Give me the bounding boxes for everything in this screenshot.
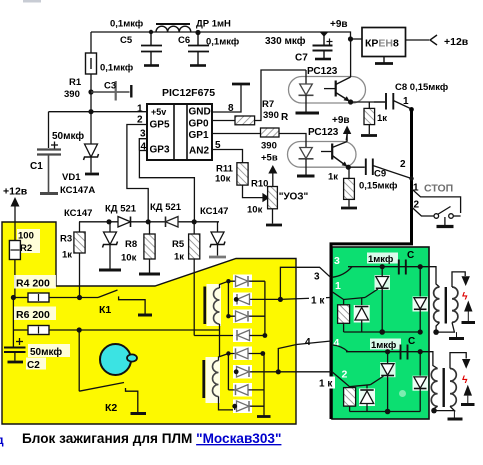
- diode gate ch2: [359, 389, 375, 412]
- svg-text:+5в: +5в: [261, 153, 278, 164]
- svg-text:+9в: +9в: [330, 19, 348, 30]
- svg-text:1 к: 1 к: [311, 296, 325, 307]
- node ch1 bottom out: [418, 329, 423, 334]
- resistor R6 200: [14, 307, 56, 321]
- phototransistor of U3: [332, 134, 347, 167]
- watermark dot: [399, 390, 406, 397]
- wire R5 bottom bus: [194, 335, 249, 337]
- node middle: [146, 219, 151, 224]
- svg-text:VD1: VD1: [62, 172, 81, 183]
- svg-text:1 к: 1 к: [319, 379, 333, 390]
- node bus top: [409, 107, 414, 112]
- svg-text:R6 200: R6 200: [16, 309, 50, 321]
- capacitor C7 electrolytic 330uF: [313, 33, 333, 59]
- svg-text:+9в: +9в: [332, 115, 350, 126]
- svg-text:2: 2: [400, 159, 406, 170]
- wire top +9v bus: [91, 32, 351, 39]
- resistor gate ch1: [338, 305, 350, 324]
- svg-text:GP3: GP3: [150, 145, 170, 156]
- node R1/C3 junction: [88, 89, 93, 94]
- svg-text:1мкф: 1мкф: [371, 340, 396, 351]
- capacitor 1uF ch1: [367, 253, 398, 264]
- diode VD2 KD521: [118, 217, 131, 228]
- node C5 junction: [149, 30, 153, 34]
- resistor R7 390 on GP0: [212, 120, 235, 122]
- capacitor C6: [188, 32, 209, 66]
- svg-text:С6: С6: [178, 35, 190, 46]
- ground under KREN8: [375, 57, 393, 64]
- rails channel 2: [228, 341, 331, 416]
- diode freewheel ch1: [413, 267, 429, 332]
- svg-text:С3: С3: [104, 81, 116, 92]
- resistor R11 10k: [237, 163, 248, 185]
- resistor 1k pull-down lower: [348, 167, 350, 178]
- svg-text:1: 1: [137, 104, 143, 115]
- svg-text:390: 390: [64, 89, 80, 100]
- svg-text:3: 3: [314, 272, 320, 283]
- svg-text:R5: R5: [172, 239, 185, 250]
- voltage regulator U KREN8: [362, 28, 406, 57]
- svg-text:4: 4: [334, 337, 340, 349]
- ignition coil T3: [420, 267, 465, 332]
- svg-text:+12в: +12в: [3, 186, 28, 198]
- svg-text:AN2: AN2: [189, 146, 209, 157]
- diode ladder channel 2: [228, 347, 278, 414]
- svg-text:С5: С5: [120, 35, 133, 46]
- svg-text:3: 3: [140, 129, 146, 140]
- node emitter U2: [348, 99, 353, 104]
- svg-text:1: 1: [335, 280, 341, 292]
- node right: [192, 219, 197, 224]
- relay contact K2: [78, 330, 80, 391]
- diode gate ch1: [354, 305, 370, 332]
- wire terminal 3 to CDI: [296, 267, 331, 277]
- zener KS147 right: [209, 222, 226, 257]
- svg-text:10к: 10к: [121, 253, 137, 264]
- zener KS147 left: [99, 222, 121, 270]
- svg-text:R10: R10: [251, 179, 268, 190]
- smudge top: [23, 0, 41, 3]
- svg-text:3: 3: [334, 255, 340, 267]
- svg-text:Блок зажигания для ПЛМ "Москав: Блок зажигания для ПЛМ "Москав303": [22, 431, 281, 446]
- thyristor VS1: [375, 275, 391, 290]
- wire zener bus: [79, 221, 219, 223]
- svg-text:КД 521: КД 521: [105, 204, 137, 215]
- transformer T1 pulse: [207, 284, 222, 326]
- svg-text:+12в: +12в: [444, 36, 469, 48]
- ignition coil T4: [420, 352, 466, 411]
- resistor R4 200: [14, 275, 56, 289]
- svg-text:R: R: [281, 112, 289, 123]
- svg-text:КД 521: КД 521: [150, 202, 182, 213]
- switch STOP kill button: [434, 207, 461, 227]
- potentiometer R10 10k wiper arrow: [252, 194, 269, 201]
- svg-text:ϟ: ϟ: [462, 291, 468, 303]
- node C7 junction: [320, 32, 328, 36]
- wire gate ch2 to CDI: [278, 371, 331, 373]
- svg-text:1к: 1к: [174, 252, 184, 263]
- capacitor C9 0,15uF: [348, 159, 411, 179]
- ground under R10: [272, 209, 274, 224]
- wire ch1 bottom: [344, 331, 421, 333]
- wire +12v output with connector: [406, 39, 430, 41]
- svg-text:330 мкф: 330 мкф: [265, 35, 306, 47]
- node ladder2: [226, 351, 230, 355]
- svg-text:2: 2: [342, 369, 348, 381]
- svg-text:РС123: РС123: [308, 127, 339, 138]
- node bus/VD1 junction: [88, 109, 93, 114]
- svg-text:GP1: GP1: [189, 130, 209, 141]
- node ch1 anode: [380, 264, 385, 269]
- svg-text:10к: 10к: [215, 174, 231, 185]
- svg-text:R2: R2: [20, 243, 32, 254]
- wire ch2 bottom: [350, 411, 421, 413]
- svg-text:КС147А: КС147А: [60, 185, 95, 196]
- ground T3: [449, 332, 464, 338]
- ground T4: [448, 411, 463, 419]
- node ladder1: [234, 297, 239, 302]
- svg-text:0,15мкф: 0,15мкф: [359, 181, 397, 192]
- svg-text:GP0: GP0: [189, 119, 209, 130]
- svg-text:R7: R7: [262, 99, 274, 110]
- node bus C9 tap: [409, 176, 413, 180]
- svg-text:"УОЗ": "УОЗ": [279, 192, 309, 203]
- svg-text:С9: С9: [374, 169, 386, 180]
- svg-text:С: С: [407, 250, 414, 261]
- resistor gate ch2: [344, 388, 356, 407]
- node ch2 cathode: [385, 409, 391, 415]
- svg-text:R3: R3: [60, 234, 72, 245]
- svg-text:1к: 1к: [62, 250, 72, 261]
- svg-text:50мкф: 50мкф: [52, 130, 84, 142]
- relay contact K1: [98, 290, 152, 315]
- resistor R1 390: [90, 32, 92, 53]
- yellow ignition block background: [2, 222, 296, 424]
- svg-text:СТОП: СТОП: [424, 183, 453, 195]
- svg-text:КРЕН8: КРЕН8: [365, 38, 399, 50]
- svg-text:R8: R8: [125, 239, 137, 250]
- node ch2 anode: [385, 349, 390, 354]
- transformer T2 pulse: [206, 357, 221, 403]
- svg-text:С1: С1: [30, 161, 43, 172]
- svg-text:КС147: КС147: [64, 208, 92, 219]
- inductor DR 1mH choke: [156, 24, 191, 32]
- node ch2 out: [418, 349, 423, 354]
- svg-text:ϟ: ϟ: [462, 374, 468, 386]
- wire thick bus to CDI block: [331, 108, 412, 419]
- spark gap ch1: [462, 276, 470, 286]
- svg-text:10к: 10к: [247, 205, 263, 216]
- svg-text:390: 390: [263, 110, 279, 121]
- capacitor 1uF ch2: [370, 339, 401, 350]
- svg-text:РС123: РС123: [307, 66, 338, 77]
- svg-text:1к: 1к: [377, 113, 387, 124]
- resistor R 390 on GP1: [212, 133, 261, 135]
- svg-text:КС147: КС147: [200, 206, 228, 217]
- svg-text:С: С: [408, 336, 415, 347]
- svg-text:0,1мкф: 0,1мкф: [110, 19, 143, 30]
- resistor R2 100: [17, 229, 40, 253]
- node ch1 out: [418, 264, 423, 269]
- svg-text:К1: К1: [99, 304, 111, 316]
- node ch1 cathode: [379, 329, 385, 335]
- wire gate ch1 to CDI: [280, 298, 330, 300]
- svg-text:0,1мкф: 0,1мкф: [100, 63, 133, 74]
- diode ladder channel 1: [228, 275, 280, 343]
- rails channel 1: [228, 267, 296, 335]
- zener VD1 KS147A: [84, 112, 100, 174]
- svg-text:R4 200: R4 200: [16, 278, 50, 290]
- diode VD3 KD521: [166, 217, 179, 228]
- capacitor C5: [141, 32, 162, 66]
- svg-text:+5v: +5v: [151, 107, 166, 117]
- capacitor C8 0,15uF: [374, 93, 412, 110]
- svg-text:С8 0,15мкф: С8 0,15мкф: [395, 82, 448, 93]
- resistor 1k pull-down upper: [368, 102, 370, 108]
- wire ch1 top: [348, 266, 420, 268]
- label 1k ch2: [317, 377, 335, 389]
- svg-text:д: д: [0, 433, 4, 447]
- capacitor C3: [91, 81, 131, 101]
- node R4 right: [77, 295, 82, 300]
- node T3 bottom: [433, 329, 439, 335]
- svg-text:1: 1: [403, 96, 409, 107]
- spark gap ch2: [462, 359, 470, 369]
- svg-text:С7: С7: [295, 53, 308, 64]
- wire ch2 top: [346, 351, 420, 353]
- node emitter U3: [346, 165, 351, 170]
- thyristor VS2: [380, 362, 396, 377]
- node left zener: [106, 219, 111, 224]
- svg-text:0,1мкф: 0,1мкф: [206, 37, 239, 48]
- svg-text:С2: С2: [27, 360, 40, 371]
- svg-text:ДР 1мН: ДР 1мН: [196, 19, 231, 30]
- svg-text:GP5: GP5: [150, 120, 170, 131]
- svg-text:GND: GND: [189, 107, 211, 118]
- capacitor C1 50uF: [37, 112, 61, 194]
- green CDI block background: [332, 247, 429, 419]
- svg-text:4: 4: [305, 337, 311, 348]
- node C6 junction: [195, 30, 200, 35]
- svg-text:1: 1: [413, 183, 419, 194]
- ground ladder 2: [257, 415, 271, 418]
- svg-text:1к: 1к: [328, 172, 338, 183]
- phototransistor of U2: [336, 39, 385, 102]
- svg-text:50мкф: 50мкф: [30, 346, 62, 358]
- magneto cam (cyan): [100, 344, 131, 375]
- potentiometer R10 body: [268, 187, 278, 209]
- svg-text:1мкф: 1мкф: [368, 254, 393, 265]
- diode freewheel ch2: [413, 352, 429, 412]
- node +9v junction: [348, 36, 353, 41]
- svg-text:PIC12F675: PIC12F675: [162, 87, 215, 99]
- node R4 left: [11, 295, 16, 300]
- wire main 5v bus: [49, 111, 148, 113]
- capacitor C2 50uF: [4, 330, 26, 362]
- svg-text:R1: R1: [69, 77, 82, 88]
- svg-text:390: 390: [261, 141, 277, 152]
- svg-text:К2: К2: [105, 402, 117, 414]
- node R6 right: [77, 327, 82, 332]
- node T4 bottom: [431, 408, 437, 414]
